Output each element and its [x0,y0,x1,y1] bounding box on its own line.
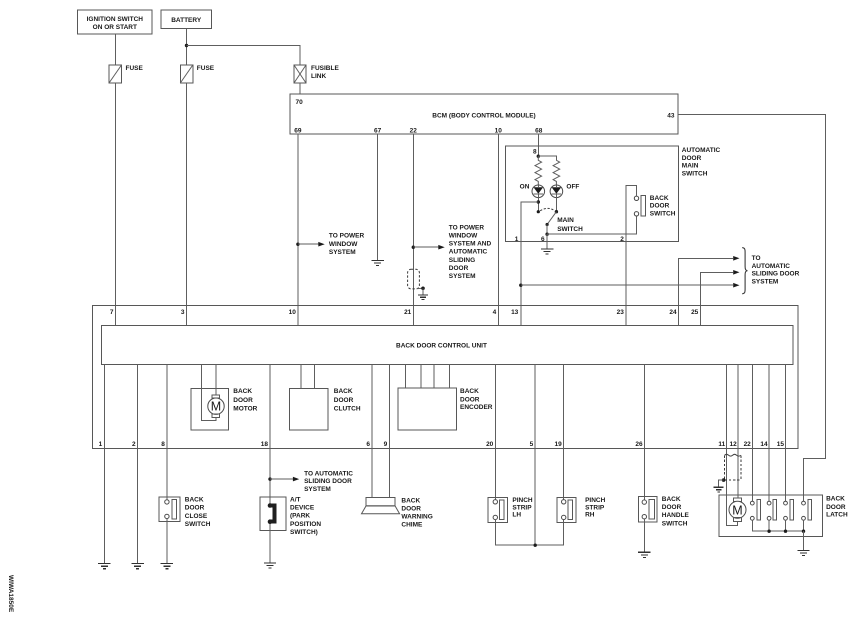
svg-text:A/T: A/T [290,497,301,504]
svg-text:SWITCH: SWITCH [682,170,708,177]
svg-text:BACK: BACK [650,195,669,202]
svg-text:68: 68 [535,128,543,135]
label MAIN SWITCH [557,217,583,233]
svg-text:WINDOW: WINDOW [449,233,478,240]
latch contact C [784,500,794,520]
svg-text:DOOR: DOOR [682,155,702,162]
wire unit pin 2 to ground [137,365,139,564]
wire unit pin 22 to latch [751,365,753,502]
svg-text:AUTOMATIC: AUTOMATIC [449,249,488,256]
svg-text:1: 1 [99,441,103,448]
svg-text:DOOR: DOOR [826,504,846,511]
automatic door main switch box S1 [506,146,721,241]
svg-text:24: 24 [669,309,677,316]
latch contact A [750,500,760,520]
svg-text:PINCH: PINCH [585,497,606,504]
resistor R-off [553,160,560,185]
ground handle switch [638,552,650,557]
wire unit pin 11 to latch motor low [727,365,738,526]
svg-text:M: M [211,400,221,414]
svg-text:STRIP: STRIP [512,504,532,511]
svg-text:19: 19 [554,441,562,448]
back door handle switch [638,496,689,527]
wire unit to motor left [202,365,217,421]
svg-text:AUTOMATIC: AUTOMATIC [682,147,721,154]
wire unit pin 15 to latch [785,365,787,502]
svg-text:18: 18 [261,441,269,448]
wire branch arrow [413,246,438,248]
svg-text:WIWA1850E: WIWA1850E [7,575,14,613]
fuse F1 [109,65,144,83]
wire BCM22 to unit pin 21 [412,134,414,325]
wire handle switch to ground [643,519,645,552]
ground latch [797,550,809,555]
wire unit pin 14 to latch [768,365,770,502]
svg-text:12: 12 [729,441,737,448]
back door close switch [159,497,211,528]
ground at shield 21 [418,295,428,300]
svg-text:MAIN: MAIN [557,217,574,224]
wire fusible link to BCM pin 70 [299,83,301,94]
svg-text:BATTERY: BATTERY [171,17,202,24]
wire unit to motor right [215,365,217,395]
svg-text:FUSIBLE: FUSIBLE [311,65,339,72]
svg-text:BACK: BACK [185,497,204,504]
wire pinch strips common [495,520,563,546]
junction led split [537,155,540,158]
ground at switch pin 6 [541,249,553,254]
svg-text:POSITION: POSITION [290,521,321,528]
wire fuse1 to control unit pin 7 [115,83,117,325]
ground shield 11 12 [714,487,724,492]
main switch blade [547,212,556,225]
svg-text:DOOR: DOOR [449,265,469,272]
wire unit pin 19 to pinch strip RH [563,365,565,500]
shield around wires 11 12 [719,454,741,486]
brace [742,248,747,294]
svg-text:10: 10 [289,309,297,316]
junction battery split [185,44,188,47]
svg-text:22: 22 [410,128,418,135]
back door control unit U2 [92,305,798,448]
wire ON led to contact [537,198,539,212]
wire unit pin 9 to chime [388,365,390,498]
svg-text:FUSE: FUSE [126,65,144,72]
node label TO AUTOMATIC SLIDING DOOR SYSTEM bottom [304,470,353,493]
wire unit pin 25 arrow [700,272,733,325]
svg-text:ENCODER: ENCODER [460,404,493,411]
svg-text:DOOR: DOOR [233,397,253,404]
junction blade pivot [555,210,558,213]
svg-text:14: 14 [760,441,768,448]
svg-text:BACK: BACK [826,496,845,503]
svg-text:SWITCH: SWITCH [185,521,211,528]
fusible link [294,65,339,83]
svg-text:BACK: BACK [334,388,353,395]
wire unit pin 20 to pinch strip LH [494,365,496,500]
wire encoder 1 [405,365,407,389]
svg-text:BACK: BACK [662,496,681,503]
svg-text:69: 69 [294,128,302,135]
wire OFF led to pivot [555,198,557,212]
svg-text:7: 7 [110,309,114,316]
svg-text:13: 13 [511,309,519,316]
svg-text:8: 8 [533,149,537,156]
wire BCM43 to latch [678,115,825,502]
svg-text:2: 2 [620,236,624,243]
svg-text:DOOR: DOOR [401,506,421,513]
wire latch to ground [803,531,805,550]
shield around wire 21 [408,269,425,294]
pinch strip RH [557,497,606,523]
wire battery to fusible link [187,46,301,66]
wire BCM10 to unit pin 4 [497,134,499,325]
svg-text:BACK: BACK [401,497,420,504]
latch motor M2 [729,498,746,521]
ground close switch [161,564,173,569]
svg-text:6: 6 [366,441,370,448]
svg-text:11: 11 [718,441,725,448]
svg-text:25: 25 [691,309,699,316]
junction arrow branch on pin 13 wire [519,284,522,287]
wire battery down [186,28,188,65]
BCM (body control module) U1 [290,94,678,134]
junction to pin 1 [537,200,540,203]
svg-text:8: 8 [161,441,165,448]
svg-text:SWITCH: SWITCH [662,521,688,528]
svg-text:CLOSE: CLOSE [185,513,208,520]
svg-text:FUSE: FUSE [197,65,215,72]
svg-text:SYSTEM: SYSTEM [752,279,779,286]
svg-text:RH: RH [585,512,595,519]
wire fuse2 to control unit pin 3 [186,83,188,325]
svg-text:TO POWER: TO POWER [449,224,485,231]
wire arrow 3 [521,284,733,286]
svg-text:OFF: OFF [566,183,579,190]
svg-text:67: 67 [374,128,382,135]
wire encoder 2 [420,365,422,389]
svg-text:SWITCH): SWITCH) [290,529,318,536]
back door motor M1 [191,388,258,430]
svg-text:SLIDING DOOR: SLIDING DOOR [304,478,352,485]
svg-text:LINK: LINK [311,73,326,80]
wire BCM69 to unit pin 10 [297,134,299,325]
contact dot ON [537,210,540,213]
back door warning chime [362,497,433,528]
ignition switch source box [78,10,153,34]
svg-text:LATCH: LATCH [826,512,848,519]
svg-text:MOTOR: MOTOR [233,406,257,413]
svg-text:WINDOW: WINDOW [329,241,358,248]
svg-text:TO AUTOMATIC: TO AUTOMATIC [304,470,353,477]
svg-text:26: 26 [635,441,643,448]
wire clutch 1 [300,365,302,389]
svg-text:M: M [732,503,742,517]
svg-text:DEVICE: DEVICE [290,505,315,512]
wire branch arrow to power window system [298,243,318,245]
junction pinch strips [534,544,537,547]
svg-text:SWITCH: SWITCH [557,226,583,233]
svg-text:SYSTEM: SYSTEM [329,249,356,256]
svg-text:BACK: BACK [233,388,252,395]
svg-text:70: 70 [296,99,304,106]
battery source box [161,10,211,29]
svg-text:DOOR: DOOR [185,505,205,512]
svg-text:43: 43 [667,112,675,119]
wire back door switch to pin 2 [626,186,637,326]
svg-text:DOOR: DOOR [650,203,670,210]
wire BCM68 to switch pin 8 [537,134,539,156]
svg-text:5: 5 [530,441,534,448]
svg-text:MAIN: MAIN [682,163,699,170]
wire unit pin 6 to chime [371,365,373,498]
svg-text:BCM (BODY CONTROL MODULE): BCM (BODY CONTROL MODULE) [432,113,535,120]
svg-text:21: 21 [404,309,412,316]
svg-text:SLIDING DOOR: SLIDING DOOR [752,271,800,278]
wire encoder 4 [448,365,450,389]
svg-text:DOOR: DOOR [334,397,354,404]
svg-text:PINCH: PINCH [512,497,533,504]
svg-text:AUTOMATIC: AUTOMATIC [752,263,791,270]
wire ignition to fuse1 [115,34,117,65]
indicator OFF LED [550,183,579,197]
svg-text:HANDLE: HANDLE [662,512,690,519]
svg-text:SYSTEM AND: SYSTEM AND [449,241,492,248]
dashed travel arc [540,208,554,210]
node label TO POWER WINDOW SYSTEM [329,233,365,256]
wire encoder 3 [433,365,435,389]
svg-text:DOOR: DOOR [460,396,480,403]
resistor R-on [535,156,542,185]
wire AT device to ground [269,524,271,563]
wire BCM67 to ground [377,134,379,260]
wire to switch pin 1 [521,202,539,325]
back door latch [719,495,848,536]
wire unit pin 24 arrow [679,258,734,325]
ground at BCM67 [371,260,383,265]
wire pin 6 to ground [546,234,548,249]
svg-text:10: 10 [495,128,503,135]
wire split to off branch [538,156,556,160]
svg-text:22: 22 [744,441,752,448]
indicator ON LED [520,183,545,197]
junction power window + ASD branch [412,246,415,249]
ground AT device [264,563,276,568]
svg-text:(PARK: (PARK [290,513,310,520]
svg-text:SWITCH: SWITCH [650,211,676,218]
junction to power window branch [296,243,299,246]
svg-text:6: 6 [541,236,545,243]
svg-text:TO: TO [752,255,761,262]
svg-text:CHIME: CHIME [401,522,423,529]
svg-text:CLUTCH: CLUTCH [334,406,361,413]
wire unit pin 1 to ground [103,365,105,564]
svg-text:ON: ON [520,183,530,190]
back door switch S2 [634,195,675,217]
wire unit pin 18 to AT device [269,365,271,504]
svg-text:WARNING: WARNING [401,514,432,521]
svg-text:SYSTEM: SYSTEM [449,273,476,280]
svg-text:3: 3 [181,309,185,316]
svg-text:20: 20 [486,441,494,448]
node label TO POWER WINDOW SYSTEM AND AUTOMATIC SLIDING DOOR SYSTEM [449,224,492,280]
AT device park position switch [260,497,321,536]
svg-text:1: 1 [515,236,519,243]
pinch strip LH [488,497,533,523]
back door clutch [290,388,361,430]
svg-text:TO POWER: TO POWER [329,233,365,240]
svg-text:STRIP: STRIP [585,504,605,511]
wire common to back door switch [547,216,636,234]
wire clutch 2 [313,365,315,389]
svg-text:23: 23 [617,309,625,316]
svg-text:2: 2 [132,441,136,448]
svg-text:SYSTEM: SYSTEM [304,486,331,493]
svg-text:9: 9 [384,441,388,448]
node label TO AUTOMATIC SLIDING DOOR SYSTEM right [752,255,800,286]
ground pin 1 [98,564,110,569]
wire blade to pin 6 junction [546,225,548,235]
svg-text:LH: LH [512,512,521,519]
svg-text:15: 15 [777,441,785,448]
wire unit pin 12 to latch motor high [737,365,739,499]
svg-text:SLIDING: SLIDING [449,257,475,264]
latch contact D [802,500,812,520]
latch contact B [767,500,776,520]
junction ASD branch [268,477,271,480]
wire arrow to ASD [270,478,293,480]
svg-text:BACK DOOR CONTROL UNIT: BACK DOOR CONTROL UNIT [396,343,487,350]
back door encoder [398,388,493,430]
wire unit pin 5 to junction [534,365,536,546]
wire latch common [752,520,803,531]
wire unit pin 8 to close switch [166,365,168,500]
svg-text:ON OR START: ON OR START [93,24,137,31]
svg-text:DOOR: DOOR [662,504,682,511]
svg-text:4: 4 [493,309,497,316]
svg-text:IGNITION SWITCH: IGNITION SWITCH [87,16,144,23]
fuse F2 [180,65,215,83]
svg-text:BACK: BACK [460,388,479,395]
wire unit pin 26 to handle switch [643,365,645,500]
ground pin 2 [131,564,143,569]
wire close switch to ground [166,519,168,564]
